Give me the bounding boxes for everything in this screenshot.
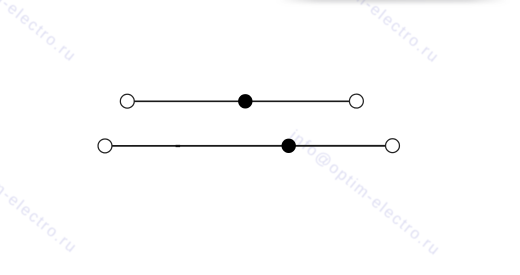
svg-text:info@optim-electro.ru: info@optim-electro.ru	[285, 0, 442, 67]
svg-text:info@optim-electro.ru: info@optim-electro.ru	[0, 0, 79, 66]
svg-text:info@optim-electro.ru: info@optim-electro.ru	[0, 125, 80, 257]
junction dot (bottom wire, filled)	[282, 139, 296, 153]
top edge gray shadow band	[278, 0, 508, 3]
wire joint tick on bottom wire	[176, 145, 181, 147]
terminal circle (bottom-right, open)	[386, 139, 400, 153]
terminal circle (top-left, open)	[120, 94, 134, 108]
terminal circle (top-right, open)	[349, 94, 363, 108]
svg-text:info@optim-electro.ru: info@optim-electro.ru	[286, 127, 443, 259]
wire (bottom contact line)	[105, 145, 393, 147]
wire (top contact line)	[127, 100, 356, 102]
terminal circle (bottom-left, open)	[98, 139, 112, 153]
junction dot (top wire, filled)	[238, 94, 252, 108]
